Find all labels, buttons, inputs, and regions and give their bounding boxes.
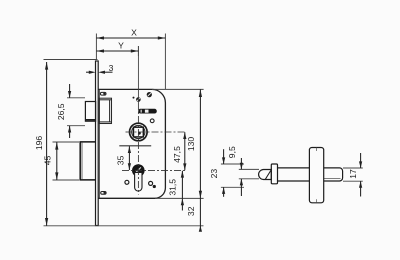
screw A	[147, 92, 152, 97]
dimension 130 and 32 shared line	[199, 89, 201, 198]
side view extension 17 bottom	[343, 180, 363, 182]
dimension 3	[86, 71, 90, 73]
svg-text:31,5: 31,5	[168, 179, 178, 196]
dimension 9,5	[240, 158, 242, 169]
plate center seam top	[316, 148, 318, 152]
internal edge line	[119, 145, 151, 147]
side view shaft right	[324, 168, 343, 181]
keyhole slot	[135, 173, 142, 192]
dimension 196	[46, 62, 48, 226]
vertical centerline	[137, 46, 139, 103]
side view shaft left	[278, 168, 310, 181]
side view extension 9,5 bottom	[239, 178, 259, 180]
extension 45 stubs	[53, 141, 80, 143]
side view extension 23 bottom	[221, 186, 244, 188]
svg-text:196: 196	[34, 136, 44, 151]
latch bolt bottom shade	[85, 119, 95, 121]
svg-text:X: X	[131, 28, 137, 38]
body left edge	[98, 89, 100, 198]
extension Y mid	[137, 46, 139, 56]
pin dot lower right	[153, 185, 156, 188]
adjuster slot	[138, 109, 157, 114]
side view extension 9,5 top	[239, 168, 259, 170]
keyhole bow	[132, 164, 145, 177]
latch housing box	[99, 98, 111, 123]
follower square hole	[134, 127, 144, 137]
extension X left	[95, 34, 97, 61]
svg-text:26,5: 26,5	[56, 103, 66, 120]
svg-text:35: 35	[116, 155, 126, 165]
follower center dot	[138, 132, 141, 135]
faceplate screw slot top	[100, 92, 106, 95]
dimension 47,5	[184, 132, 186, 170]
latch tip bevel	[265, 170, 271, 180]
side view extension 23 top	[221, 163, 244, 165]
hole right of keyhole	[149, 181, 153, 185]
dimension Y	[96, 50, 138, 52]
small hole right of follower	[150, 119, 154, 123]
svg-text:130: 130	[186, 137, 196, 152]
deadbolt inner edge	[81, 143, 83, 180]
faceplate screw slot bottom	[101, 192, 106, 195]
latch bolt head	[85, 102, 95, 122]
side view extension 17 top	[343, 167, 363, 169]
svg-text:45: 45	[43, 156, 53, 166]
extension body bottom right	[155, 197, 204, 199]
extension 26.5 stubs	[67, 97, 85, 99]
svg-text:32: 32	[186, 206, 196, 216]
shaft inner line	[324, 178, 341, 180]
extension body top right	[152, 88, 204, 90]
dimension 45	[56, 142, 58, 180]
svg-text:17: 17	[348, 169, 358, 179]
dimension 35	[128, 146, 130, 170]
svg-text:Y: Y	[118, 41, 124, 51]
keyhole horizontal centerline	[122, 169, 187, 171]
dimension 17	[360, 153, 362, 168]
plate center seam bottom	[316, 199, 318, 203]
side view plate	[309, 148, 323, 203]
side view collar	[271, 164, 277, 184]
hole left of keyhole	[125, 180, 129, 184]
dimension 23	[223, 149, 225, 164]
extension line faceplate top-left	[44, 59, 98, 61]
follower horizontal centerline	[126, 131, 187, 133]
faceplate front view	[96, 61, 99, 226]
svg-text:9,5: 9,5	[227, 146, 237, 158]
svg-text:23: 23	[209, 169, 219, 179]
side view latch tip	[259, 170, 272, 180]
follower outer circle	[130, 123, 148, 141]
extension line bottom long	[44, 225, 204, 227]
deadbolt head	[80, 142, 95, 180]
dimension X	[96, 37, 165, 39]
svg-text:47,5: 47,5	[172, 146, 182, 163]
svg-text:3: 3	[109, 63, 114, 73]
dimension 31,5	[181, 171, 183, 199]
dimension 26,5	[69, 84, 71, 98]
extension X right	[164, 34, 166, 90]
follower inner circle	[132, 125, 145, 138]
screw C on centerline	[136, 97, 141, 102]
tiny pin B	[133, 97, 135, 99]
lock body outline	[98, 89, 165, 198]
